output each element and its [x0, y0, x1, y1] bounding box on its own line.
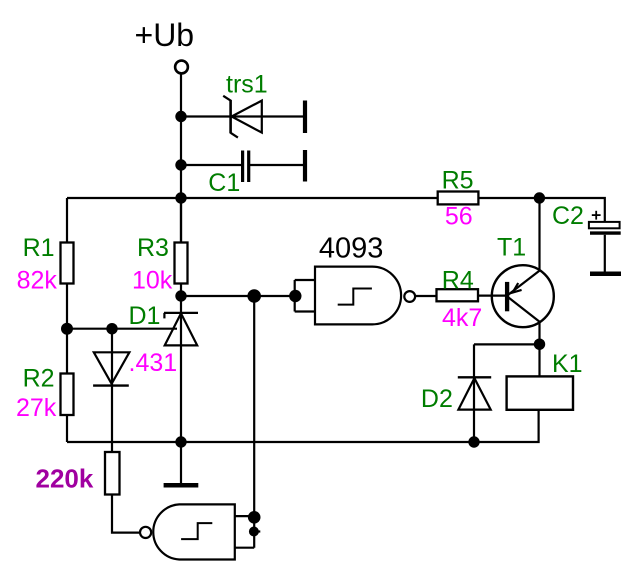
wire input tick [254, 530, 260, 532]
junction 431 top [106, 323, 117, 334]
relay K1 [507, 376, 573, 409]
capacitor C2 [589, 211, 621, 233]
svg-text:.431: .431 [129, 349, 178, 377]
svg-text:4k7: 4k7 [442, 304, 482, 332]
wire ground stem [180, 442, 182, 483]
junction gate input stub [289, 290, 301, 302]
diode 431 [93, 352, 129, 385]
junction R1-R2 node [61, 323, 73, 335]
svg-text:C2: C2 [552, 202, 584, 230]
junction R5-collector node [534, 192, 545, 203]
resistor R5 [438, 192, 479, 205]
capacitor C1 [243, 151, 249, 183]
wire left rail R1 top [66, 198, 68, 243]
junction ground node [175, 436, 186, 447]
svg-text:4093: 4093 [319, 233, 384, 265]
svg-text:R5: R5 [442, 167, 474, 195]
svg-text:D1: D1 [129, 302, 161, 330]
wire main vertical to U2 inputs [253, 296, 255, 548]
terminal +Ub [175, 61, 188, 74]
nand gate U1 4093 [315, 267, 415, 325]
resistor R4 [437, 289, 479, 301]
junction U2 input upper [248, 511, 261, 524]
junction rail-Ub [175, 192, 186, 203]
svg-text:R4: R4 [442, 266, 474, 294]
wire C2 to ground [604, 235, 606, 272]
wire R5 to C2 node [478, 198, 604, 222]
junction K1 top node [534, 339, 545, 350]
terminal bar trs1 [303, 101, 307, 134]
svg-text:trs1: trs1 [226, 71, 268, 99]
resistor R2 [61, 374, 74, 416]
wire top rail [67, 197, 438, 199]
wire trs1 row [181, 115, 303, 117]
wire U1 input stubs [295, 280, 315, 312]
svg-text:R3: R3 [137, 234, 169, 262]
ground right [590, 272, 621, 277]
junction C1 tap [175, 159, 186, 170]
ground mid [164, 483, 199, 488]
wire 431 vertical [111, 329, 113, 452]
nand gate U2 [140, 504, 235, 559]
resistor R1 [61, 243, 74, 284]
svg-text:27k: 27k [16, 394, 57, 422]
junction trs1 tap [175, 111, 186, 122]
wire emitter down to K1 [538, 322, 540, 376]
wire bottom rail [67, 410, 539, 442]
wire mid row to D1 [67, 328, 177, 330]
svg-text:82k: 82k [17, 267, 58, 295]
wire 220k to gate U2 output [112, 495, 140, 533]
wire R4 to base [478, 295, 506, 297]
svg-text:D2: D2 [421, 385, 453, 413]
svg-text:K1: K1 [552, 350, 583, 378]
svg-text:+Ub: +Ub [135, 17, 195, 53]
resistor R3 [175, 243, 188, 284]
terminal bar C1 [303, 150, 307, 182]
wire C1 row left [181, 164, 241, 166]
svg-text:10k: 10k [132, 267, 173, 295]
svg-text:R2: R2 [23, 365, 55, 393]
junction U2 input lower [249, 527, 259, 537]
wire D2 branch [474, 344, 540, 442]
transistor T1 [492, 265, 554, 327]
wire R2 to bottom rail [66, 415, 68, 442]
wire R3 top tap [180, 198, 182, 243]
wire +Ub rail vertical [180, 74, 182, 243]
svg-text:R1: R1 [23, 234, 55, 262]
wire U1 output to R4 [415, 295, 436, 297]
wire R3 through D1 to bottom rail [180, 284, 182, 443]
svg-text:220k: 220k [36, 464, 94, 494]
svg-text:C1: C1 [208, 169, 240, 197]
transil trs1 [223, 96, 262, 138]
diode D2 [458, 377, 491, 409]
resistor 220k [105, 452, 120, 495]
wire U2 input stubs [235, 516, 254, 548]
wire gate U1 input row [181, 295, 295, 297]
wire C1 row right [250, 164, 303, 166]
wire R1 to R2 [66, 284, 68, 374]
svg-text:T1: T1 [497, 234, 526, 262]
diode D1 [164, 313, 198, 346]
svg-text:56: 56 [445, 203, 473, 231]
wire collector up [538, 198, 540, 270]
junction R3-D1 node [175, 290, 186, 301]
junction D2 bottom node [468, 436, 479, 447]
junction input-vertical [247, 289, 261, 303]
